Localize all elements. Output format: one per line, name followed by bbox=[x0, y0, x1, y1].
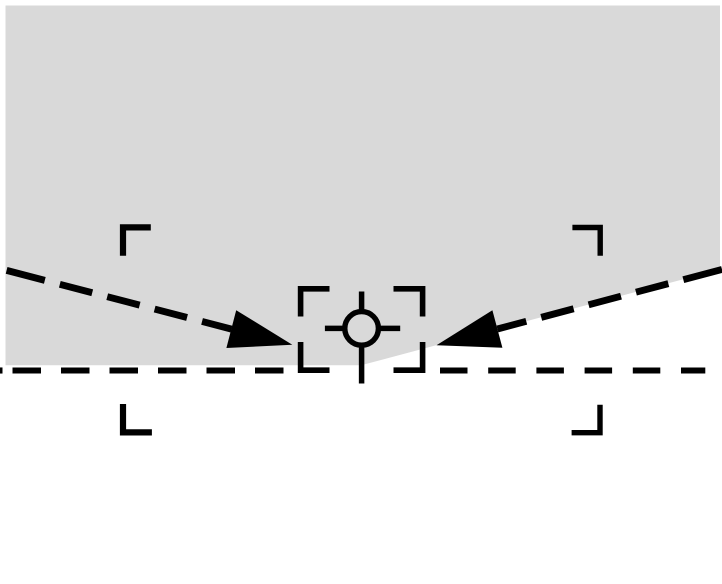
outer bracket top-right bbox=[572, 228, 600, 256]
gray terrain region bbox=[6, 6, 721, 366]
left sight line (dashed diagonal) bbox=[7, 270, 232, 329]
target symbol top tick bbox=[359, 292, 365, 311]
inner bracket top-right bbox=[394, 289, 423, 317]
target symbol bottom tick bbox=[359, 347, 365, 383]
inner bracket bottom-left bbox=[301, 342, 330, 370]
inner bracket top-left bbox=[301, 289, 330, 317]
horizontal dashed line left segment bbox=[13, 367, 285, 373]
target symbol circle bbox=[345, 312, 379, 346]
target symbol right tick bbox=[380, 326, 400, 332]
right arrowhead bbox=[437, 310, 503, 348]
outer bracket top-left bbox=[123, 227, 151, 255]
target symbol left tick bbox=[325, 326, 343, 332]
horizontal dashed line right segment bbox=[440, 367, 705, 373]
outer bracket bottom-left bbox=[123, 404, 152, 432]
right sight line (dashed diagonal) bbox=[497, 269, 722, 329]
outer bracket bottom-right bbox=[572, 405, 600, 433]
left arrowhead bbox=[226, 310, 292, 348]
horizontal dashed line (left sliver) bbox=[0, 367, 3, 373]
inner bracket bottom-right bbox=[394, 342, 423, 370]
